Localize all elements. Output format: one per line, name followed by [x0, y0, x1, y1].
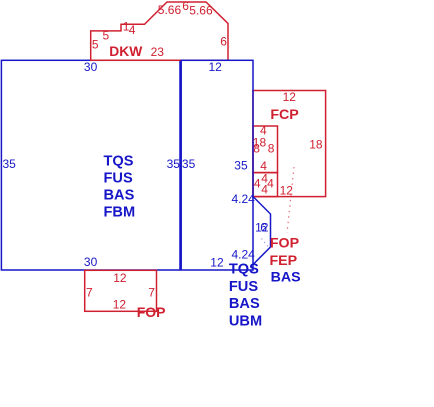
- FCP rectangle: [253, 91, 326, 197]
- dotted leader line to FOP label: [287, 167, 294, 233]
- svg-text:18: 18: [309, 138, 323, 152]
- svg-text:FBM: FBM: [104, 204, 136, 220]
- deck DKW outline: [91, 2, 228, 60]
- svg-text:30: 30: [84, 255, 98, 269]
- svg-text:35: 35: [3, 157, 17, 171]
- svg-text:35: 35: [182, 157, 196, 171]
- svg-text:12: 12: [209, 60, 223, 74]
- svg-text:35: 35: [234, 159, 248, 173]
- small stoop rectangle 4x8: [253, 126, 278, 173]
- svg-text:BAS: BAS: [104, 187, 135, 203]
- svg-text:4: 4: [260, 123, 267, 137]
- second rectangle (middle, TQS lower): [181, 60, 253, 270]
- svg-text:4: 4: [129, 23, 136, 37]
- svg-text:8: 8: [268, 141, 275, 155]
- svg-text:UBM: UBM: [229, 314, 262, 330]
- dotted leader line to FEP label: [262, 239, 269, 248]
- svg-text:4.24: 4.24: [232, 248, 256, 262]
- svg-text:DKW: DKW: [109, 44, 143, 59]
- svg-text:12: 12: [113, 271, 127, 285]
- svg-text:FUS: FUS: [229, 279, 258, 295]
- svg-text:FOP: FOP: [137, 304, 166, 320]
- svg-text:FEP: FEP: [270, 253, 298, 269]
- svg-text:6: 6: [220, 35, 227, 49]
- svg-text:12: 12: [283, 90, 297, 104]
- svg-text:6: 6: [260, 221, 267, 235]
- svg-text:TQS: TQS: [229, 262, 259, 278]
- svg-text:5.66: 5.66: [158, 3, 182, 17]
- FOP porch rectangle (bottom left): [85, 270, 157, 311]
- svg-text:FOP: FOP: [270, 235, 299, 251]
- svg-text:BAS: BAS: [229, 296, 260, 312]
- svg-text:FUS: FUS: [104, 171, 133, 187]
- svg-text:5: 5: [103, 29, 110, 43]
- svg-text:BAS: BAS: [271, 270, 301, 286]
- svg-text:FCP: FCP: [270, 107, 298, 123]
- svg-text:12: 12: [113, 297, 127, 311]
- svg-text:TQS: TQS: [104, 154, 134, 170]
- small stoop rectangle 4x4: [253, 173, 278, 197]
- svg-text:4: 4: [261, 183, 268, 197]
- svg-text:30: 30: [84, 60, 98, 74]
- main rectangle (left, TQS): [1, 60, 180, 270]
- svg-text:12: 12: [210, 256, 224, 270]
- svg-text:4.24: 4.24: [232, 192, 256, 206]
- svg-text:4: 4: [267, 177, 274, 191]
- svg-text:4: 4: [254, 177, 261, 191]
- svg-text:6: 6: [182, 0, 189, 13]
- svg-text:5.66: 5.66: [189, 4, 213, 18]
- svg-text:7: 7: [148, 285, 155, 299]
- bay bump-out polyline (right of second rect): [253, 197, 271, 265]
- svg-text:5: 5: [92, 38, 99, 52]
- svg-text:35: 35: [167, 157, 181, 171]
- svg-text:7: 7: [86, 285, 93, 299]
- svg-text:23: 23: [151, 45, 165, 59]
- svg-text:8: 8: [253, 141, 260, 155]
